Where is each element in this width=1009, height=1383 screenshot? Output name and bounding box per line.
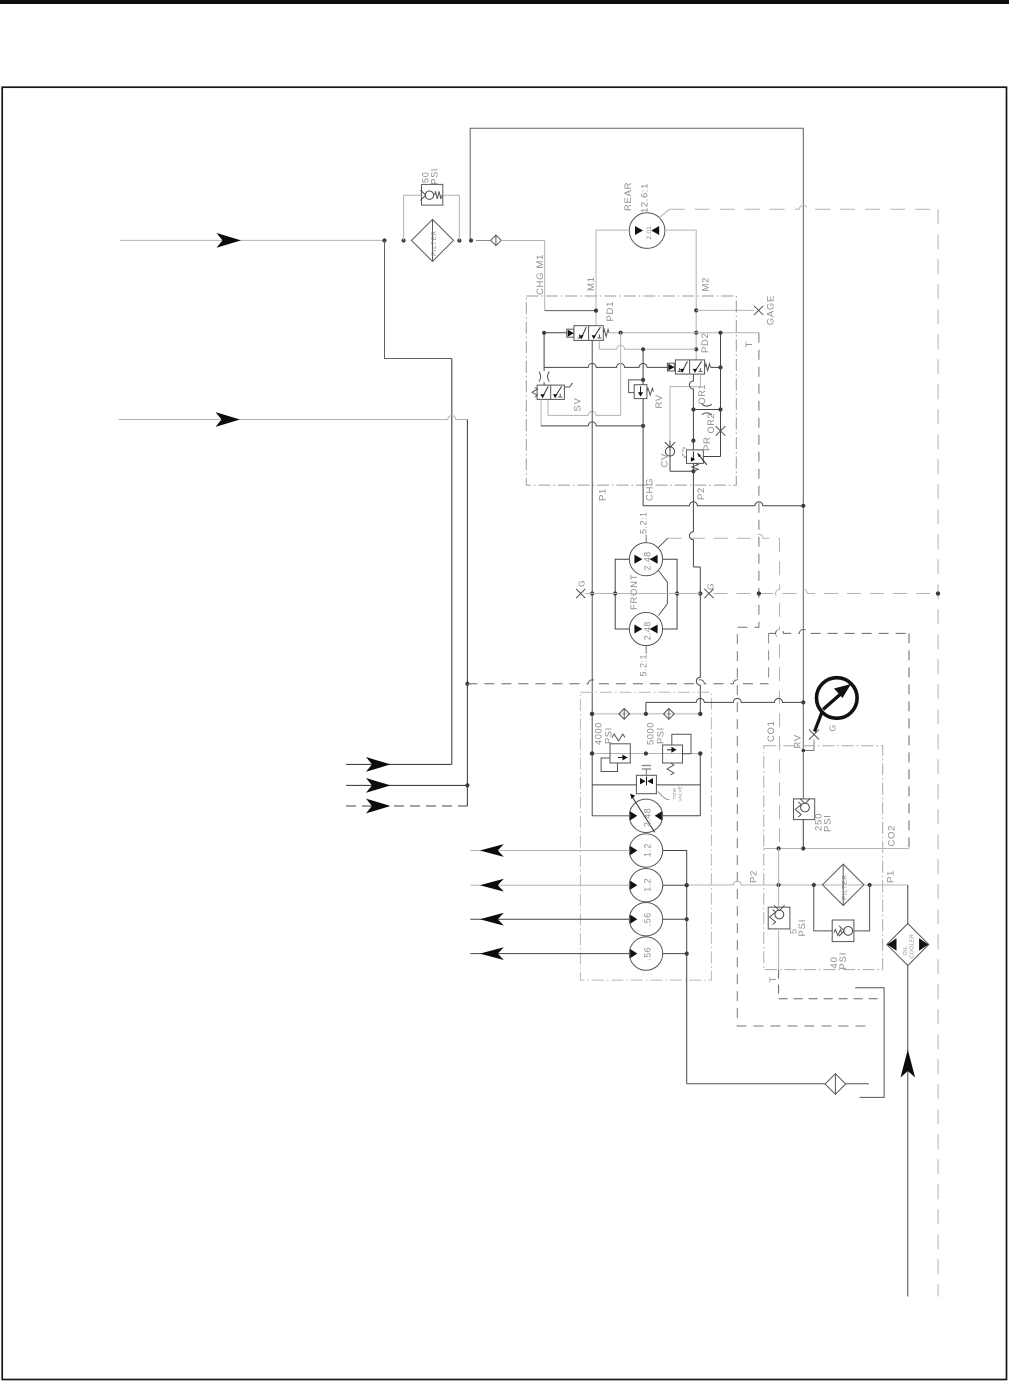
label M1 — [586, 276, 597, 291]
wire charge header to RV — [646, 698, 806, 714]
label 5 PSI — [787, 919, 807, 937]
test line G gauge ports — [576, 580, 715, 598]
label SV — [573, 397, 584, 411]
wire return jog — [855, 988, 884, 1098]
label P1 right — [886, 870, 897, 883]
label P2 port — [696, 487, 707, 500]
label PD2 — [700, 332, 711, 353]
svg-text:P2: P2 — [696, 487, 707, 500]
label 5.2:1 upper — [638, 511, 648, 542]
wire drain top run — [769, 629, 909, 633]
svg-text:T: T — [768, 976, 779, 983]
svg-text:PD1: PD1 — [605, 301, 616, 322]
wire supply inlet line — [120, 233, 385, 248]
wire gauge tap — [802, 740, 815, 753]
test point GAGE — [754, 295, 776, 325]
svg-text:FILTER: FILTER — [431, 230, 438, 256]
relief valve 250 PSI — [794, 798, 815, 819]
wire 5 PSI outlet — [778, 929, 780, 970]
wire QD2 stub — [846, 1083, 869, 1085]
label 2.01 in motor — [646, 226, 653, 240]
svg-text:2.48: 2.48 — [643, 621, 653, 640]
label 1.2 second — [643, 878, 653, 892]
valve PD2 spring — [705, 364, 711, 371]
svg-text:OR2: OR2 — [706, 413, 716, 434]
wire pilot line to PD2 solenoid — [544, 363, 668, 367]
wire return from tank port — [385, 241, 452, 359]
wire charge check line — [590, 712, 703, 716]
wire front motor loop right — [663, 559, 680, 629]
svg-text:FRONT: FRONT — [629, 574, 640, 610]
wire front motor loop left — [613, 559, 629, 629]
svg-text:2.48: 2.48 — [643, 808, 653, 827]
wire drain right drop — [908, 633, 910, 848]
filter FILTER1 (suction filter) — [412, 219, 454, 261]
wire top loop to RV header — [470, 128, 803, 799]
wire G dashed extension — [714, 590, 941, 596]
svg-text:CV: CV — [660, 453, 671, 468]
wire inlet 3 — [346, 757, 452, 772]
wire CHG to RV header — [643, 502, 805, 508]
wire filter outlet — [476, 240, 491, 242]
valve PR spring — [692, 463, 698, 470]
label CO2 — [887, 825, 898, 847]
label 1.2 first — [643, 843, 653, 857]
label 5000 PSI — [646, 722, 666, 745]
svg-text:G: G — [828, 724, 838, 731]
wire REAR case drain — [659, 205, 938, 218]
pump 1.2 first — [629, 834, 662, 867]
svg-text:5.2:1: 5.2:1 — [638, 654, 648, 677]
svg-text:5000: 5000 — [646, 722, 656, 745]
wire P2 cooler feed — [685, 881, 908, 887]
test point G gauge — [809, 724, 838, 739]
wire filter to cooler — [907, 885, 909, 924]
svg-text:2.48: 2.48 — [643, 551, 653, 570]
svg-text:PSI: PSI — [604, 727, 614, 744]
svg-text:P1: P1 — [598, 488, 609, 501]
wire pump inlet 2 — [470, 879, 629, 892]
svg-text:P2: P2 — [749, 870, 760, 883]
label REAR — [623, 182, 634, 211]
svg-text:G: G — [576, 580, 586, 587]
valve SV pilot tab — [564, 383, 572, 387]
wire PD2 T-port loop — [670, 374, 700, 441]
wire SV port A — [541, 399, 645, 428]
filter FILTER2 (return filter) — [823, 864, 864, 905]
wire pump 2.48 outlet — [663, 815, 701, 817]
svg-text:CO2: CO2 — [887, 825, 898, 847]
wire CHG rail — [642, 349, 644, 506]
valve SV spring — [532, 388, 537, 398]
svg-text:12.6:1: 12.6:1 — [640, 183, 651, 213]
wire PR outlet P2 — [691, 463, 695, 485]
wire P2 drop lower — [696, 567, 702, 756]
valve PD1 spring — [603, 329, 609, 336]
svg-text:PR: PR — [702, 436, 713, 451]
svg-text:4000: 4000 — [594, 722, 604, 745]
label CHG port — [645, 478, 656, 501]
quick disconnect QD2 — [825, 1074, 846, 1095]
valve PD1 solenoid — [567, 329, 574, 337]
svg-text:M1: M1 — [586, 276, 597, 291]
wire inlet 5 (case drain, dashed) — [346, 799, 467, 814]
wire pump outlet stubs — [663, 885, 687, 953]
wire drain to 5 PSI — [778, 849, 780, 908]
label 4000 PSI — [594, 722, 614, 745]
valve RV body — [634, 385, 647, 399]
enclosure pump block — [580, 692, 711, 980]
label T bottom — [768, 976, 779, 983]
wire vertical return leg — [451, 359, 453, 765]
svg-text:PSI: PSI — [822, 814, 833, 832]
label OR1 — [697, 384, 707, 405]
wire pump inlet 3 — [470, 913, 629, 926]
wire P2 to tow line — [699, 754, 701, 816]
svg-text:OR1: OR1 — [697, 384, 707, 405]
wire GAGE tap — [696, 309, 754, 311]
label FILTER2 — [842, 874, 849, 900]
svg-text:OIL: OIL — [903, 946, 909, 956]
svg-text:G: G — [706, 583, 716, 590]
svg-text:PD2: PD2 — [700, 332, 711, 353]
label TOW VALVE — [658, 786, 684, 802]
wire P2 drop — [689, 485, 700, 567]
svg-text:.56: .56 — [643, 947, 653, 961]
wire cooler outlet — [901, 966, 916, 1297]
wire drain drop to CO box — [776, 538, 780, 848]
label FILTER1 — [431, 230, 438, 256]
check valve 50 PSI — [420, 184, 442, 205]
svg-text:VALVE: VALVE — [678, 786, 684, 802]
svg-text:CHG M1: CHG M1 — [535, 254, 546, 295]
svg-text:COOLER: COOLER — [909, 934, 915, 959]
svg-text:PSI: PSI — [430, 168, 440, 185]
orifice OR1 — [702, 404, 712, 414]
label M2 — [701, 277, 712, 292]
label OIL COOLER — [903, 934, 916, 959]
label CO1 — [766, 720, 777, 742]
wire filter bypass loop — [814, 885, 870, 931]
wire inlet 4 — [346, 778, 467, 793]
wire pump outlet header — [663, 851, 689, 1084]
label 2.48 pump — [643, 808, 653, 827]
label 250 PSI — [813, 813, 833, 832]
svg-text:M2: M2 — [701, 277, 712, 292]
check valve CV — [665, 441, 675, 472]
valve PD2 solenoid — [667, 363, 674, 371]
svg-text:.56: .56 — [643, 912, 653, 926]
wire PD1 pilot from solenoid — [542, 331, 567, 371]
valve SV body — [537, 385, 564, 399]
enclosure CO1 box — [764, 746, 883, 970]
valve PR body — [683, 448, 707, 465]
relief valve 5000 PSI — [663, 734, 691, 775]
svg-text:P1: P1 — [886, 870, 897, 883]
label FRONT — [629, 574, 640, 610]
page header bar — [0, 0, 1009, 4]
wire OR1 branch — [693, 407, 722, 411]
pressure gauge — [815, 678, 858, 732]
check valve charge right — [664, 709, 675, 720]
wire motor REAR port M1 — [594, 230, 629, 326]
motor REAR 2.01 — [629, 213, 665, 249]
orifice on SV pilot — [539, 372, 549, 382]
label T — [744, 341, 755, 348]
label P2 right — [749, 870, 760, 883]
wire 50 PSI bypass loop — [404, 195, 460, 240]
quick disconnect QD1 — [491, 235, 502, 246]
wire P1 rail — [590, 340, 594, 785]
wire RV out — [802, 820, 804, 849]
label 12.6:1 — [640, 183, 651, 213]
svg-text:SV: SV — [573, 397, 584, 411]
label 50 PSI — [421, 168, 440, 185]
svg-text:T: T — [744, 341, 755, 348]
pump .56 first — [629, 903, 662, 936]
svg-text:CO1: CO1 — [766, 720, 777, 742]
label OR2 — [706, 413, 716, 434]
wire tow line — [592, 784, 700, 786]
pump .56 second — [629, 937, 662, 970]
node junctions on inlet line — [382, 238, 473, 242]
label CV — [660, 453, 671, 468]
label RV right — [793, 734, 804, 748]
wire right case drain header (dashed) — [936, 209, 940, 1296]
wire SV riser — [548, 333, 621, 416]
wire PD1 bottom port — [599, 340, 696, 351]
wire feed leg to pump group — [465, 420, 469, 807]
wire supply inlet 2 — [119, 412, 468, 427]
svg-text:TOW: TOW — [672, 788, 678, 800]
motor FRONT upper 2.48 — [629, 543, 662, 576]
wire CHG M1 charge line — [501, 241, 596, 311]
label 5.2:1 lower — [638, 646, 648, 677]
label 2.48 front lower — [643, 621, 653, 640]
svg-text:FILTER: FILTER — [842, 874, 849, 900]
svg-text:REAR: REAR — [623, 182, 634, 211]
svg-text:PSI: PSI — [656, 727, 666, 744]
svg-text:RV: RV — [654, 394, 665, 408]
svg-text:1.2: 1.2 — [643, 843, 653, 857]
wire front motor case drain — [658, 534, 779, 547]
svg-text:CHG: CHG — [645, 478, 656, 501]
valve PD2 body — [675, 360, 704, 374]
wire CO return header — [764, 846, 909, 850]
label 40 PSI — [828, 952, 848, 970]
label 2.48 front upper — [643, 551, 653, 570]
valve TOW — [636, 766, 656, 794]
pump 2.48 variable — [629, 794, 662, 833]
check valve charge left — [619, 709, 630, 720]
label PR — [702, 436, 713, 451]
wire T drain lower (dashed) — [779, 970, 885, 999]
wire front motor shared drain — [659, 571, 668, 616]
svg-text:2.01: 2.01 — [646, 226, 653, 240]
wire P2 rail in block — [689, 374, 695, 450]
svg-text:PSI: PSI — [796, 919, 807, 937]
valve PD1 body — [574, 326, 603, 341]
label RV — [654, 394, 665, 408]
wire to QD2 — [687, 1083, 825, 1085]
wire drain riser — [768, 633, 770, 683]
orifice OR2 (plugged) — [716, 426, 726, 436]
motor FRONT lower 2.48 — [629, 612, 662, 645]
wire CV bottom loop — [670, 470, 693, 472]
valve RV spring — [647, 388, 654, 395]
svg-text:GAGE: GAGE — [765, 295, 776, 325]
wire case drain return (dashed) — [467, 680, 768, 684]
svg-text:5.2:1: 5.2:1 — [638, 511, 648, 534]
wire T rail right — [703, 333, 720, 457]
svg-text:1.2: 1.2 — [643, 878, 653, 892]
relief valve 4000 PSI — [601, 734, 630, 771]
oil cooler — [887, 924, 929, 966]
wire motor REAR port M2 — [665, 230, 698, 360]
wire pump inlet 1 — [470, 844, 629, 857]
check valve 40 PSI — [832, 920, 854, 942]
label .56 first — [643, 912, 653, 926]
label CHG M1 — [535, 254, 546, 295]
enclosure valve block — [526, 296, 736, 485]
svg-text:PSI: PSI — [837, 952, 848, 970]
wire PD2 out to rail — [710, 365, 722, 369]
label PD1 — [605, 301, 616, 322]
wire P1 to pump 2.48 — [592, 785, 629, 816]
check valve 5 PSI — [768, 905, 790, 929]
wire SV pilot lower — [543, 382, 545, 385]
label P1 port — [598, 488, 609, 501]
valve RV pilot loop — [629, 378, 646, 393]
wire PD1 out (gray) to T header — [606, 331, 759, 335]
wire T header dashed — [737, 333, 870, 1026]
label .56 second — [643, 947, 653, 961]
wire relief rail — [590, 751, 703, 755]
pump 1.2 second — [629, 869, 662, 902]
wire pump inlet 4 — [470, 947, 629, 960]
svg-text:RV: RV — [793, 734, 804, 748]
